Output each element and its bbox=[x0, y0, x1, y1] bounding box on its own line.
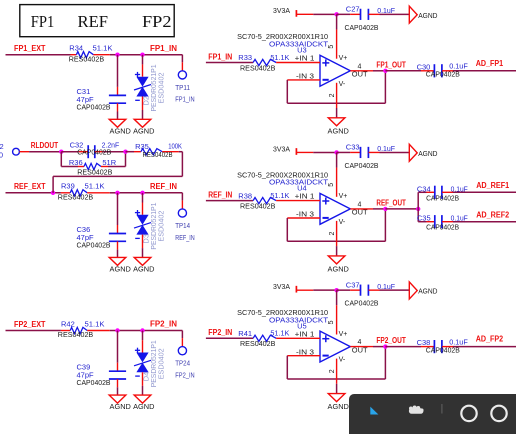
svg-text:V+: V+ bbox=[339, 55, 348, 62]
op-amp U5 OPA333AIDCKT bbox=[237, 308, 368, 373]
net label REF_IN bbox=[150, 182, 177, 191]
net label FP1_OUT bbox=[376, 60, 406, 69]
wire V- pin U5 bbox=[336, 359, 338, 394]
svg-text:REF_EXT: REF_EXT bbox=[14, 182, 46, 191]
svg-text:CAP0402B: CAP0402B bbox=[426, 345, 460, 354]
op-amp U3 OPA333AIDCKT bbox=[237, 32, 368, 97]
net label AD_FP2 bbox=[476, 335, 504, 344]
net label AD_REF2 bbox=[476, 210, 509, 219]
svg-text:C37: C37 bbox=[346, 280, 360, 289]
ground AGND (bypass) bbox=[409, 282, 438, 299]
svg-text:RES0402B: RES0402B bbox=[240, 201, 275, 210]
svg-text:AGND: AGND bbox=[418, 11, 438, 20]
svg-text:AGND: AGND bbox=[110, 402, 132, 411]
capacitor C32 2.2nF bbox=[61, 141, 125, 159]
svg-text:RES0402B: RES0402B bbox=[58, 192, 93, 201]
svg-text:R41: R41 bbox=[238, 329, 252, 338]
wire V+ pin U3 bbox=[336, 14, 338, 58]
svg-text:100K: 100K bbox=[168, 141, 182, 150]
svg-text:51.1K: 51.1K bbox=[93, 44, 113, 53]
svg-text:51.1K: 51.1K bbox=[270, 329, 289, 338]
junction node FP2_OUT bbox=[383, 344, 387, 348]
svg-text:FP2_EXT: FP2_EXT bbox=[14, 320, 46, 329]
svg-text:+IN 1: +IN 1 bbox=[295, 194, 315, 201]
capacitor C39 47pF bbox=[77, 331, 127, 396]
svg-text:REF_IN: REF_IN bbox=[150, 182, 177, 191]
junction node FP1_IN at diode bbox=[140, 53, 144, 57]
svg-text:CAP0402B: CAP0402B bbox=[345, 299, 379, 308]
svg-text:4: 4 bbox=[358, 339, 362, 346]
svg-text:FP1_OUT: FP1_OUT bbox=[376, 60, 406, 69]
svg-text:REF_IN: REF_IN bbox=[175, 233, 194, 242]
ground AGND (cap) bbox=[109, 119, 131, 135]
junction node V+ rail U4 bbox=[334, 150, 338, 154]
junction node REF_IN at diode bbox=[140, 191, 144, 195]
svg-text:5: 5 bbox=[328, 320, 335, 324]
svg-text:AGND: AGND bbox=[418, 149, 438, 158]
svg-text:FP2_IN: FP2_IN bbox=[150, 320, 177, 329]
viewer toolbar overlay bbox=[349, 394, 516, 434]
zoom in icon bbox=[491, 406, 506, 421]
junction node REF_EXT / RLD bbox=[51, 191, 55, 195]
svg-text:ESD0402: ESD0402 bbox=[157, 211, 166, 242]
resistor R33 51.1K bbox=[206, 53, 320, 72]
junction node RLDOUT left bbox=[59, 150, 63, 154]
svg-text:51.1K: 51.1K bbox=[85, 182, 105, 191]
svg-text:REF: REF bbox=[78, 12, 109, 31]
junction node REF_OUT branch bbox=[416, 207, 420, 211]
svg-text:FP2: FP2 bbox=[142, 12, 172, 31]
wire output U5 bbox=[350, 346, 385, 348]
svg-text:R36: R36 bbox=[69, 158, 83, 167]
svg-text:2: 2 bbox=[329, 93, 336, 97]
net label RLDOUT bbox=[31, 141, 58, 150]
wire RLD return to REF_EXT bbox=[53, 152, 182, 193]
svg-text:CAP0402B: CAP0402B bbox=[77, 378, 111, 387]
svg-text:5: 5 bbox=[328, 45, 335, 49]
resistor R35 100K bbox=[126, 141, 183, 159]
wire output U4 bbox=[350, 208, 385, 210]
net label FP2_IN (op-amp) bbox=[208, 328, 232, 337]
wire V+ pin U5 bbox=[336, 290, 338, 334]
ground AGND (cap) bbox=[109, 395, 131, 411]
svg-text:REF_IN: REF_IN bbox=[208, 191, 232, 200]
svg-text:AGND: AGND bbox=[110, 265, 132, 274]
net label REF_IN (op-amp) bbox=[208, 191, 232, 200]
net label REF_OUT bbox=[376, 199, 406, 208]
svg-text:FP1: FP1 bbox=[31, 12, 55, 31]
net label FP1_IN bbox=[150, 44, 177, 53]
capacitor C31 47pF bbox=[77, 55, 127, 120]
svg-text:FP2_OUT: FP2_OUT bbox=[376, 336, 406, 345]
svg-text:V-: V- bbox=[339, 219, 346, 226]
svg-text:AGND: AGND bbox=[133, 402, 155, 411]
svg-text:CAP0402B: CAP0402B bbox=[426, 193, 459, 202]
svg-text:CAP0402B: CAP0402B bbox=[77, 241, 111, 250]
capacitor C36 47pF bbox=[77, 193, 127, 258]
net label FP2_OUT bbox=[376, 336, 406, 345]
svg-text:0.1uF: 0.1uF bbox=[451, 214, 469, 223]
wire V+ pin U4 bbox=[336, 152, 338, 196]
svg-text:AD_REF1: AD_REF1 bbox=[476, 181, 509, 190]
wire 3V3A rail bbox=[313, 289, 336, 291]
ground AGND (diode) bbox=[133, 395, 155, 411]
svg-text:CAP0402B: CAP0402B bbox=[77, 148, 111, 157]
ESD diode D2 PESDR0521P1 bbox=[134, 55, 166, 120]
svg-text:0.1uF: 0.1uF bbox=[451, 184, 469, 193]
svg-text:+IN 1: +IN 1 bbox=[295, 331, 315, 338]
svg-text:AD_REF2: AD_REF2 bbox=[476, 210, 509, 219]
svg-text:3V3A: 3V3A bbox=[273, 144, 290, 153]
svg-text:C34: C34 bbox=[417, 184, 431, 193]
svg-text:FP1_IN: FP1_IN bbox=[175, 95, 194, 104]
svg-text:U5: U5 bbox=[297, 321, 307, 330]
zoom out icon bbox=[461, 406, 476, 421]
capacitor C38 0.1uF output bbox=[385, 338, 516, 355]
resistor R42 51.1K bbox=[58, 319, 118, 339]
svg-text:CAP0402B: CAP0402B bbox=[77, 102, 111, 111]
net label FP2_EXT bbox=[14, 320, 46, 329]
junction node REF_OUT bbox=[383, 207, 387, 211]
svg-text:AGND: AGND bbox=[418, 287, 438, 296]
junction node RLDOUT right bbox=[123, 150, 127, 154]
svg-text:RES0402B: RES0402B bbox=[143, 150, 173, 159]
svg-text:CAP0402B: CAP0402B bbox=[426, 223, 459, 232]
svg-text:AGND: AGND bbox=[110, 126, 132, 135]
svg-text:V-: V- bbox=[339, 357, 346, 364]
power symbol 3V3A bbox=[273, 6, 313, 17]
connector pin RLDOUT (left edge) bbox=[0, 142, 61, 159]
cursor icon bbox=[370, 407, 378, 415]
svg-text:FP2_IN: FP2_IN bbox=[175, 371, 194, 380]
ground AGND (op-amp) bbox=[328, 394, 350, 412]
svg-text:+IN 1: +IN 1 bbox=[295, 56, 315, 63]
power symbol 3V3A bbox=[273, 144, 313, 155]
svg-text:0.1uF: 0.1uF bbox=[377, 6, 395, 15]
test point TP24 bbox=[175, 331, 194, 380]
svg-text:FP1_IN: FP1_IN bbox=[208, 52, 232, 61]
svg-text:V+: V+ bbox=[339, 193, 348, 200]
wire V- pin U3 bbox=[336, 83, 338, 118]
wire branch verticals bbox=[417, 192, 419, 221]
junction node FP1_OUT bbox=[383, 69, 387, 73]
svg-text:RES0402B: RES0402B bbox=[58, 330, 93, 339]
svg-text:R42: R42 bbox=[61, 319, 75, 328]
svg-text:4: 4 bbox=[358, 201, 362, 208]
wire FP1_EXT net bbox=[6, 54, 183, 56]
svg-text:3V3A: 3V3A bbox=[273, 6, 290, 15]
svg-text:V+: V+ bbox=[339, 331, 348, 338]
wire FP2_EXT net bbox=[6, 330, 183, 332]
ground AGND (diode) bbox=[133, 257, 155, 273]
svg-text:51.1K: 51.1K bbox=[270, 53, 289, 62]
resistor R38 51.1K bbox=[206, 191, 320, 210]
ground AGND (op-amp) bbox=[328, 256, 350, 274]
svg-text:U4: U4 bbox=[297, 184, 307, 193]
svg-text:RES0402B: RES0402B bbox=[69, 54, 104, 63]
svg-text:U3: U3 bbox=[297, 46, 307, 55]
svg-text:ESD0402: ESD0402 bbox=[157, 348, 166, 379]
ground AGND (op-amp) bbox=[328, 118, 350, 136]
svg-text:FP2_IN: FP2_IN bbox=[208, 328, 232, 337]
svg-text:AD_FP2: AD_FP2 bbox=[476, 335, 504, 344]
svg-text:0.1uF: 0.1uF bbox=[377, 282, 395, 291]
svg-text:RLDOUT: RLDOUT bbox=[31, 141, 58, 150]
svg-text:RES0402B: RES0402B bbox=[240, 339, 275, 348]
svg-text:C33: C33 bbox=[346, 143, 360, 152]
svg-text:AGND: AGND bbox=[328, 126, 350, 135]
svg-text:V-: V- bbox=[339, 81, 346, 88]
hand icon bbox=[409, 406, 424, 414]
svg-text:3V3A: 3V3A bbox=[273, 282, 290, 291]
svg-text:R33: R33 bbox=[238, 53, 252, 62]
net label REF_EXT bbox=[14, 182, 46, 191]
svg-text:RES0402B: RES0402B bbox=[77, 167, 112, 176]
junction node V+ rail U5 bbox=[334, 288, 338, 292]
svg-text:AGND: AGND bbox=[328, 264, 350, 273]
svg-text:C35: C35 bbox=[417, 214, 431, 223]
net label FP2_IN bbox=[150, 320, 177, 329]
wire output to branch bbox=[385, 208, 418, 210]
svg-text:2: 2 bbox=[329, 369, 336, 373]
wire REF_EXT net bbox=[6, 192, 183, 194]
net label FP1_IN (op-amp) bbox=[208, 52, 232, 61]
divider bbox=[441, 404, 443, 414]
resistor R41 51.1K bbox=[206, 329, 320, 348]
wire feedback U3 bbox=[287, 71, 385, 103]
svg-text:R34: R34 bbox=[69, 44, 83, 53]
svg-text:FP1_EXT: FP1_EXT bbox=[14, 44, 46, 53]
test point TP11 bbox=[175, 55, 194, 104]
svg-text:C27: C27 bbox=[346, 4, 360, 13]
svg-text:51R: 51R bbox=[102, 158, 116, 167]
junction node REF_IN at cap bbox=[115, 191, 119, 195]
svg-text:AGND: AGND bbox=[133, 126, 155, 135]
test point TP14 bbox=[175, 193, 194, 242]
svg-text:CAP0402B: CAP0402B bbox=[426, 70, 460, 79]
svg-text:0: 0 bbox=[0, 150, 3, 159]
svg-text:5: 5 bbox=[328, 183, 335, 187]
capacitor C30 0.1uF output bbox=[385, 62, 516, 79]
svg-text:FP1_IN: FP1_IN bbox=[150, 44, 177, 53]
svg-text:4: 4 bbox=[358, 63, 362, 70]
svg-text:R39: R39 bbox=[61, 182, 75, 191]
capacitor C33 0.1uF bypass bbox=[337, 143, 410, 170]
wire output U3 bbox=[350, 70, 385, 72]
wire feedback U5 bbox=[287, 347, 385, 379]
ground AGND (bypass) bbox=[409, 144, 438, 161]
title box bbox=[20, 5, 174, 37]
junction node FP2_IN at cap bbox=[115, 328, 119, 332]
resistor R39 51.1K bbox=[58, 182, 118, 202]
ground AGND (diode) bbox=[133, 119, 155, 135]
resistor R36 51R bbox=[61, 152, 125, 177]
wire 3V3A rail bbox=[313, 13, 336, 15]
svg-text:OUT: OUT bbox=[352, 347, 368, 354]
svg-text:2: 2 bbox=[329, 232, 336, 236]
junction node FP2_IN at diode bbox=[140, 328, 144, 332]
junction node FP1_IN at cap bbox=[115, 53, 119, 57]
capacitor C34 0.1uF bbox=[417, 184, 516, 202]
svg-text:CAP0402B: CAP0402B bbox=[345, 23, 379, 32]
svg-text:REF_OUT: REF_OUT bbox=[376, 199, 406, 208]
capacitor C35 0.1uF bbox=[417, 214, 516, 232]
svg-text:CAP0402B: CAP0402B bbox=[345, 161, 379, 170]
ESD diode D3 PESDR0521P1 bbox=[134, 193, 166, 258]
ground AGND (bypass) bbox=[409, 6, 438, 23]
ground AGND (cap) bbox=[109, 257, 131, 273]
junction node V+ rail U3 bbox=[334, 12, 338, 16]
svg-text:ESD0402: ESD0402 bbox=[157, 73, 166, 104]
svg-text:51.1K: 51.1K bbox=[85, 319, 105, 328]
svg-text:TP24: TP24 bbox=[175, 359, 190, 368]
net label AD_FP1 bbox=[476, 59, 504, 68]
power symbol 3V3A bbox=[273, 282, 313, 293]
net label FP1_EXT bbox=[14, 44, 46, 53]
svg-text:AD_FP1: AD_FP1 bbox=[476, 59, 504, 68]
svg-text:OUT: OUT bbox=[352, 210, 368, 217]
net label AD_REF1 bbox=[476, 181, 509, 190]
wire V- pin U4 bbox=[336, 221, 338, 256]
svg-text:TP11: TP11 bbox=[175, 83, 190, 92]
svg-text:R38: R38 bbox=[238, 191, 252, 200]
ESD diode D4 PESDR0521P1 bbox=[134, 331, 166, 396]
svg-text:RES0402B: RES0402B bbox=[240, 63, 275, 72]
wire 3V3A rail bbox=[313, 151, 336, 153]
svg-text:51.1K: 51.1K bbox=[270, 191, 289, 200]
op-amp U4 OPA333AIDCKT bbox=[237, 170, 368, 235]
svg-text:TP14: TP14 bbox=[175, 221, 190, 230]
svg-text:AGND: AGND bbox=[328, 402, 350, 411]
capacitor C37 0.1uF bypass bbox=[337, 280, 410, 307]
capacitor C27 0.1uF bypass bbox=[337, 4, 410, 31]
svg-text:0.1uF: 0.1uF bbox=[377, 144, 395, 153]
wire feedback U4 bbox=[287, 209, 385, 241]
resistor R34 51.1K bbox=[69, 44, 118, 64]
svg-text:AGND: AGND bbox=[133, 265, 155, 274]
svg-text:OUT: OUT bbox=[352, 72, 368, 79]
